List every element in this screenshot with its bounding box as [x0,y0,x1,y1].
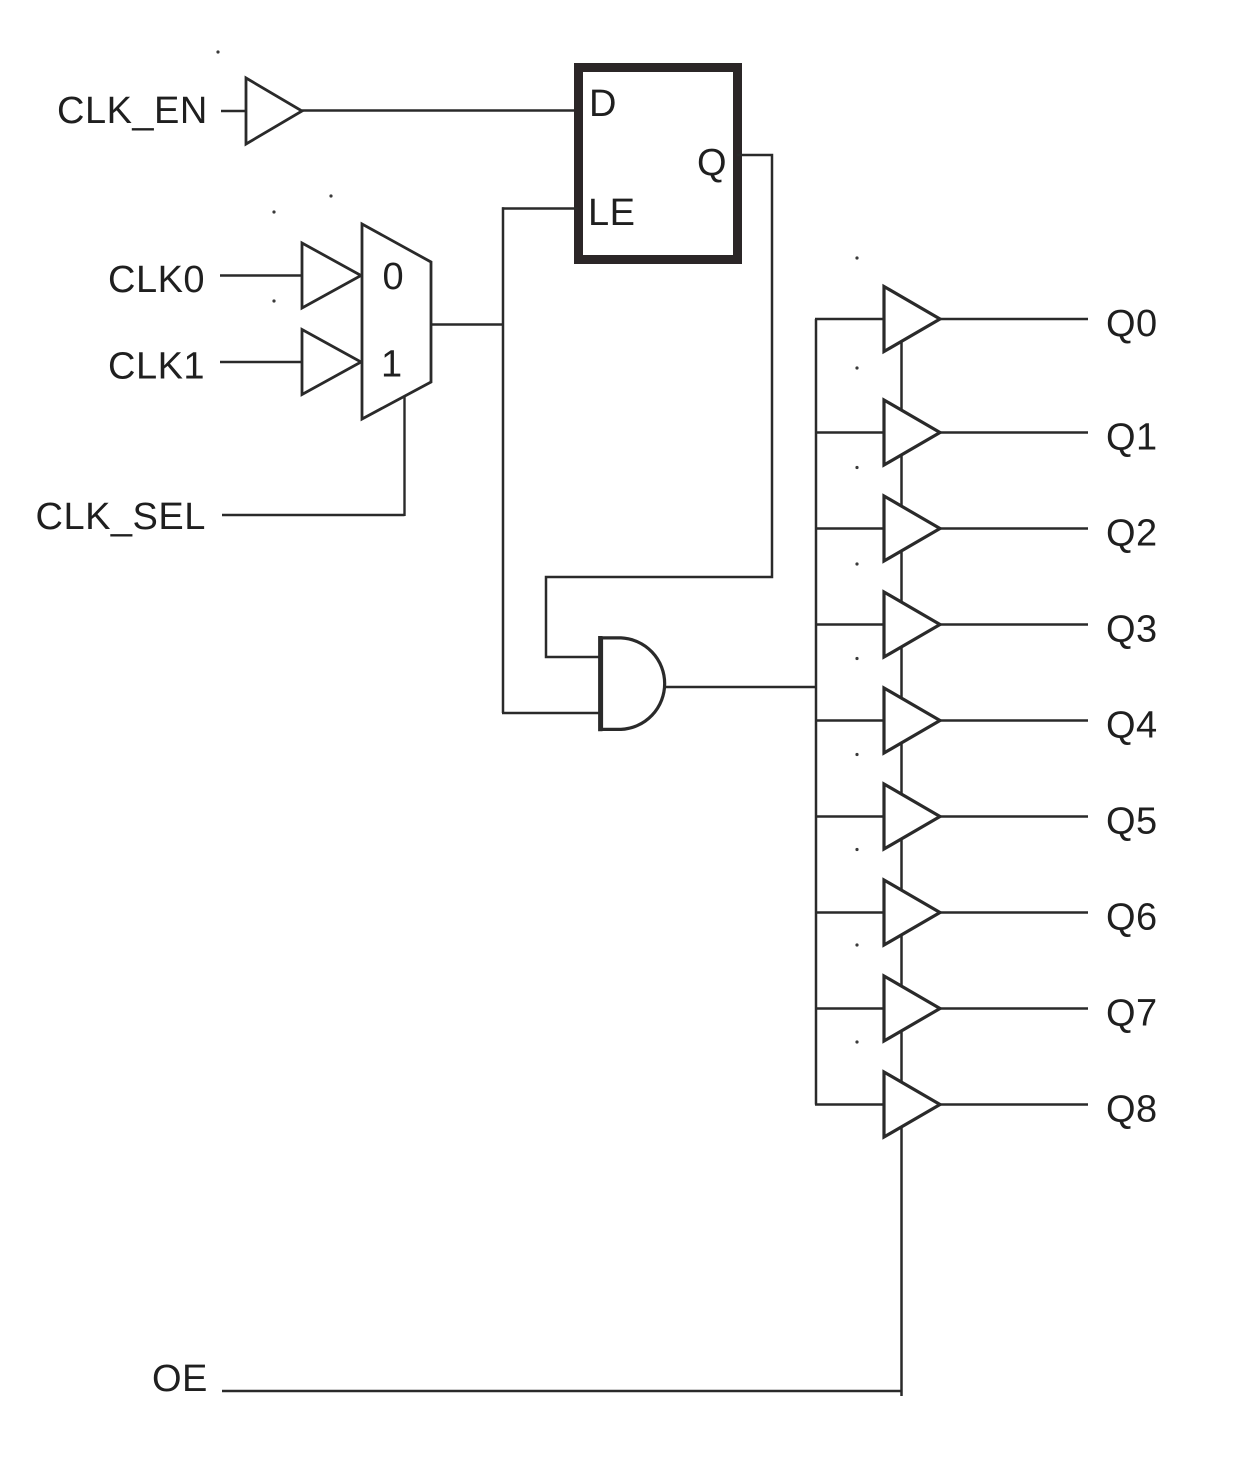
svg-text:0: 0 [383,256,405,298]
svg-text:Q5: Q5 [1106,801,1158,843]
wire buffer Q3 output [940,623,1088,626]
wire buffer Q4 output [940,719,1088,722]
wire CLK1 label to buffer [220,361,303,363]
AND gate clock gating [602,638,665,730]
svg-text:Q2: Q2 [1106,513,1158,555]
wire output-enable chain vertical [900,342,903,1397]
svg-text:Q4: Q4 [1106,705,1158,747]
buffer Q1 output driver [884,400,940,465]
svg-text:Q0: Q0 [1106,303,1158,345]
buffer Q8 output driver [884,1072,940,1137]
svg-text:1: 1 [381,344,403,386]
svg-text:OE: OE [152,1358,208,1400]
wire buffer Q1 output [940,431,1088,434]
wire bus to buffer Q7 input [815,1007,885,1010]
buffer Q5 output driver [884,784,940,849]
wire bus to buffer Q4 input [815,719,885,722]
latch U1 (D/LE latch) [579,68,738,260]
buffer CLK1 input [302,330,361,395]
wire bus to buffer Q2 input [815,527,885,530]
buffer CLK_EN input [246,78,302,144]
wire Q output of latch [546,155,772,657]
buffer Q4 output driver [884,688,940,753]
wire AND output to buffer bus [666,686,817,689]
wire bus to buffer Q8 input [815,1103,885,1106]
wire CLK0 label to buffer [220,274,303,276]
wire buffer Q2 output [940,527,1088,530]
wire bus to buffer Q3 input [815,623,885,626]
wire bus to buffer Q1 input [815,431,885,434]
wire CLK_SEL vertical to mux select [403,396,405,516]
buffer Q0 output driver [884,287,940,352]
wire CLK_SEL horizontal [222,514,405,516]
svg-text:CLK_SEL: CLK_SEL [36,496,206,538]
buffer Q3 output driver [884,592,940,657]
wire buffer input bus vertical [815,319,818,1105]
svg-text:CLK_EN: CLK_EN [57,90,208,132]
wire OE horizontal [222,1390,903,1392]
wire bus to buffer Q0 input [815,318,885,321]
wire buffer Q7 output [940,1007,1088,1010]
buffer Q7 output driver [884,976,940,1041]
svg-text:LE: LE [588,192,635,234]
wire bus to buffer Q5 input [815,815,885,818]
wire buffer Q5 output [940,815,1088,818]
buffer CLK0 input [302,243,361,308]
svg-text:Q8: Q8 [1106,1089,1158,1131]
wire mux output to LE node [431,323,503,326]
svg-text:Q6: Q6 [1106,897,1158,939]
buffer Q2 output driver [884,496,940,561]
svg-text:CLK0: CLK0 [108,259,205,301]
svg-text:Q3: Q3 [1106,609,1158,651]
wire LE vertical (mux output to LE pin and AND gate) [502,207,505,713]
svg-text:D: D [589,83,617,125]
wire LE node to LE pin [502,207,578,210]
mux clock select 2:1 [362,224,431,419]
svg-text:Q7: Q7 [1106,993,1158,1035]
svg-text:Q1: Q1 [1106,417,1158,459]
wire buffer to D input [302,109,578,112]
wire buffer Q8 output [940,1103,1088,1106]
svg-text:CLK1: CLK1 [108,346,205,388]
wire buffer Q0 output [940,318,1088,321]
wire buffer Q6 output [940,911,1088,914]
buffer Q6 output driver [884,880,940,945]
wire CLK_EN label to buffer [221,110,246,112]
AND gate back bar [598,636,602,731]
wire bus to buffer Q6 input [815,911,885,914]
svg-text:Q: Q [697,142,727,184]
wire LE node to AND gate lower input [502,712,601,715]
